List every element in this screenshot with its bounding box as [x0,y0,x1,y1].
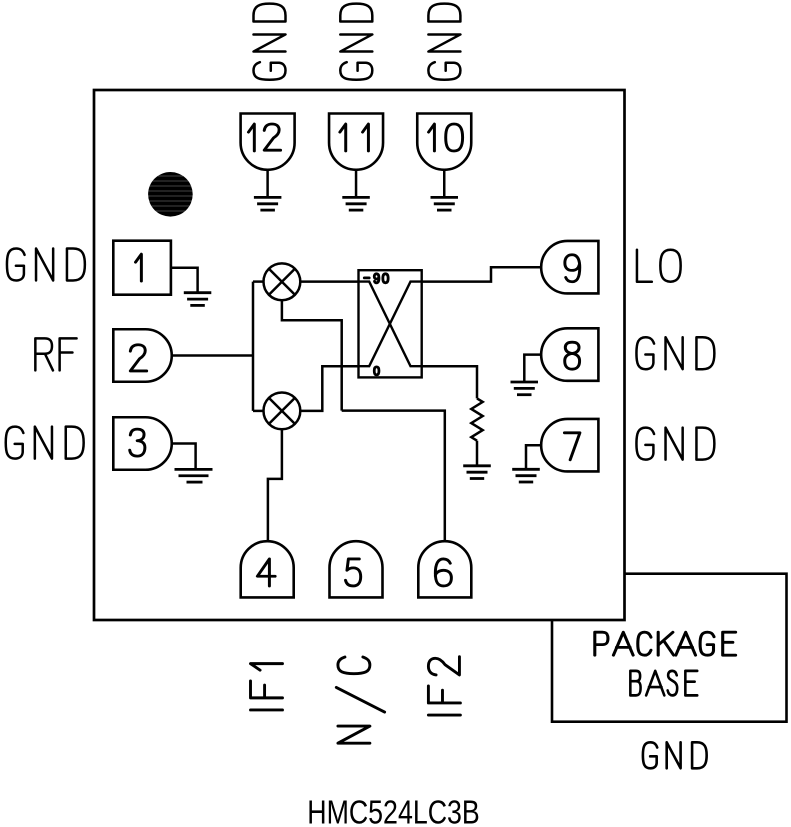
svg-text:HMC524LC3B: HMC524LC3B [307,795,480,827]
